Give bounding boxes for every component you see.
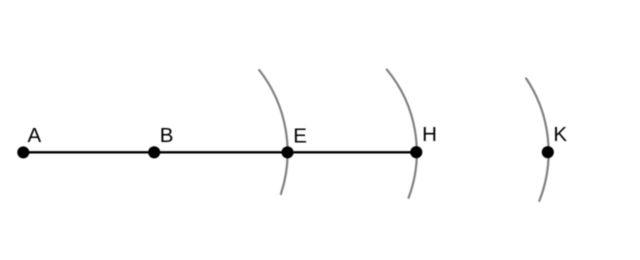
svg-text:A: A — [28, 124, 42, 147]
svg-text:H: H — [422, 123, 437, 146]
svg-text:E: E — [293, 124, 307, 147]
svg-text:B: B — [160, 124, 174, 147]
svg-text:K: K — [553, 123, 567, 146]
